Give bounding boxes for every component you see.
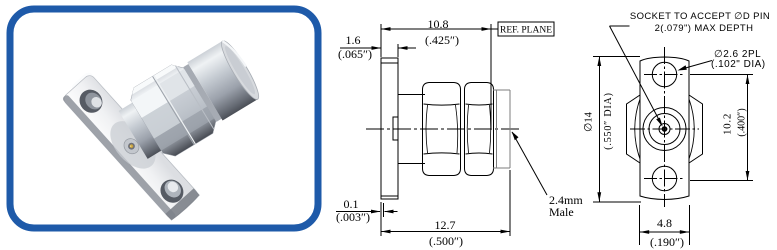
svg-text:(.500″): (.500″): [429, 234, 463, 248]
svg-text:(.550″ DIA): (.550″ DIA): [603, 92, 614, 149]
flange hole top: [75, 85, 107, 118]
svg-text:(.102" DIA): (.102" DIA): [711, 59, 766, 70]
svg-text:∅14: ∅14: [583, 111, 594, 131]
svg-text:10.2: 10.2: [722, 113, 734, 135]
left hex wing: [627, 95, 641, 163]
svg-text:(.425″): (.425″): [425, 33, 459, 47]
3D connector photo: [60, 32, 267, 221]
bottom mounting hole: [652, 166, 676, 190]
flange plate 3D: [60, 70, 201, 221]
2.4mm Male leader: [512, 132, 547, 195]
hex nut: [126, 60, 220, 161]
dimension 4.8 bottom: [640, 205, 690, 245]
dimension 10.2 right: [690, 75, 753, 181]
photo panel frame (blue rounded border): [10, 9, 318, 228]
rear boss: [119, 102, 163, 159]
plate centre shadow: [102, 113, 165, 177]
groove: [183, 64, 221, 122]
top mounting hole: [652, 62, 676, 86]
svg-text:SOCKET TO ACCEPT ∅D PIN: SOCKET TO ACCEPT ∅D PIN: [630, 11, 770, 22]
dimension 10.8: [381, 24, 491, 128]
hex segment left: [423, 83, 461, 176]
right hex wing: [689, 95, 703, 163]
dimension 12.7: [381, 170, 510, 236]
svg-text:10.8: 10.8: [428, 17, 449, 31]
flange outline: [381, 58, 398, 199]
coupling cylinder: [187, 41, 257, 120]
svg-text:12.7: 12.7: [435, 218, 456, 232]
svg-text:Male: Male: [549, 205, 574, 219]
nose (gray): [493, 90, 510, 168]
connector barrel along axis: [112, 32, 266, 169]
back recess step: [393, 117, 398, 140]
hex segment right: [465, 83, 494, 176]
svg-text:0.1: 0.1: [344, 197, 359, 211]
svg-text:(.400″): (.400″): [736, 108, 747, 136]
dimension Ø14 left: [593, 57, 641, 202]
dimension 1.6: [340, 44, 416, 57]
center interface circles: [643, 108, 686, 151]
flange hole bottom: [156, 175, 188, 208]
svg-text:(.003″): (.003″): [336, 210, 370, 224]
centerlines right view: [630, 47, 699, 207]
center pin recess: [121, 136, 142, 157]
centerline: [366, 128, 522, 130]
REF. PLANE box: [491, 22, 554, 36]
svg-text:REF. PLANE: REF. PLANE: [500, 26, 552, 36]
svg-text:(.065″): (.065″): [338, 47, 372, 61]
svg-text:4.8: 4.8: [657, 216, 672, 230]
svg-text:1.6: 1.6: [346, 33, 361, 47]
barrel between flange and hex: [398, 94, 425, 96]
flange outline: [640, 57, 689, 66]
svg-text:2(.079") MAX DEPTH: 2(.079") MAX DEPTH: [655, 23, 754, 34]
end cap: [216, 37, 263, 102]
dimension 0.1: [336, 202, 398, 236]
svg-text:(.190″): (.190″): [650, 235, 684, 249]
